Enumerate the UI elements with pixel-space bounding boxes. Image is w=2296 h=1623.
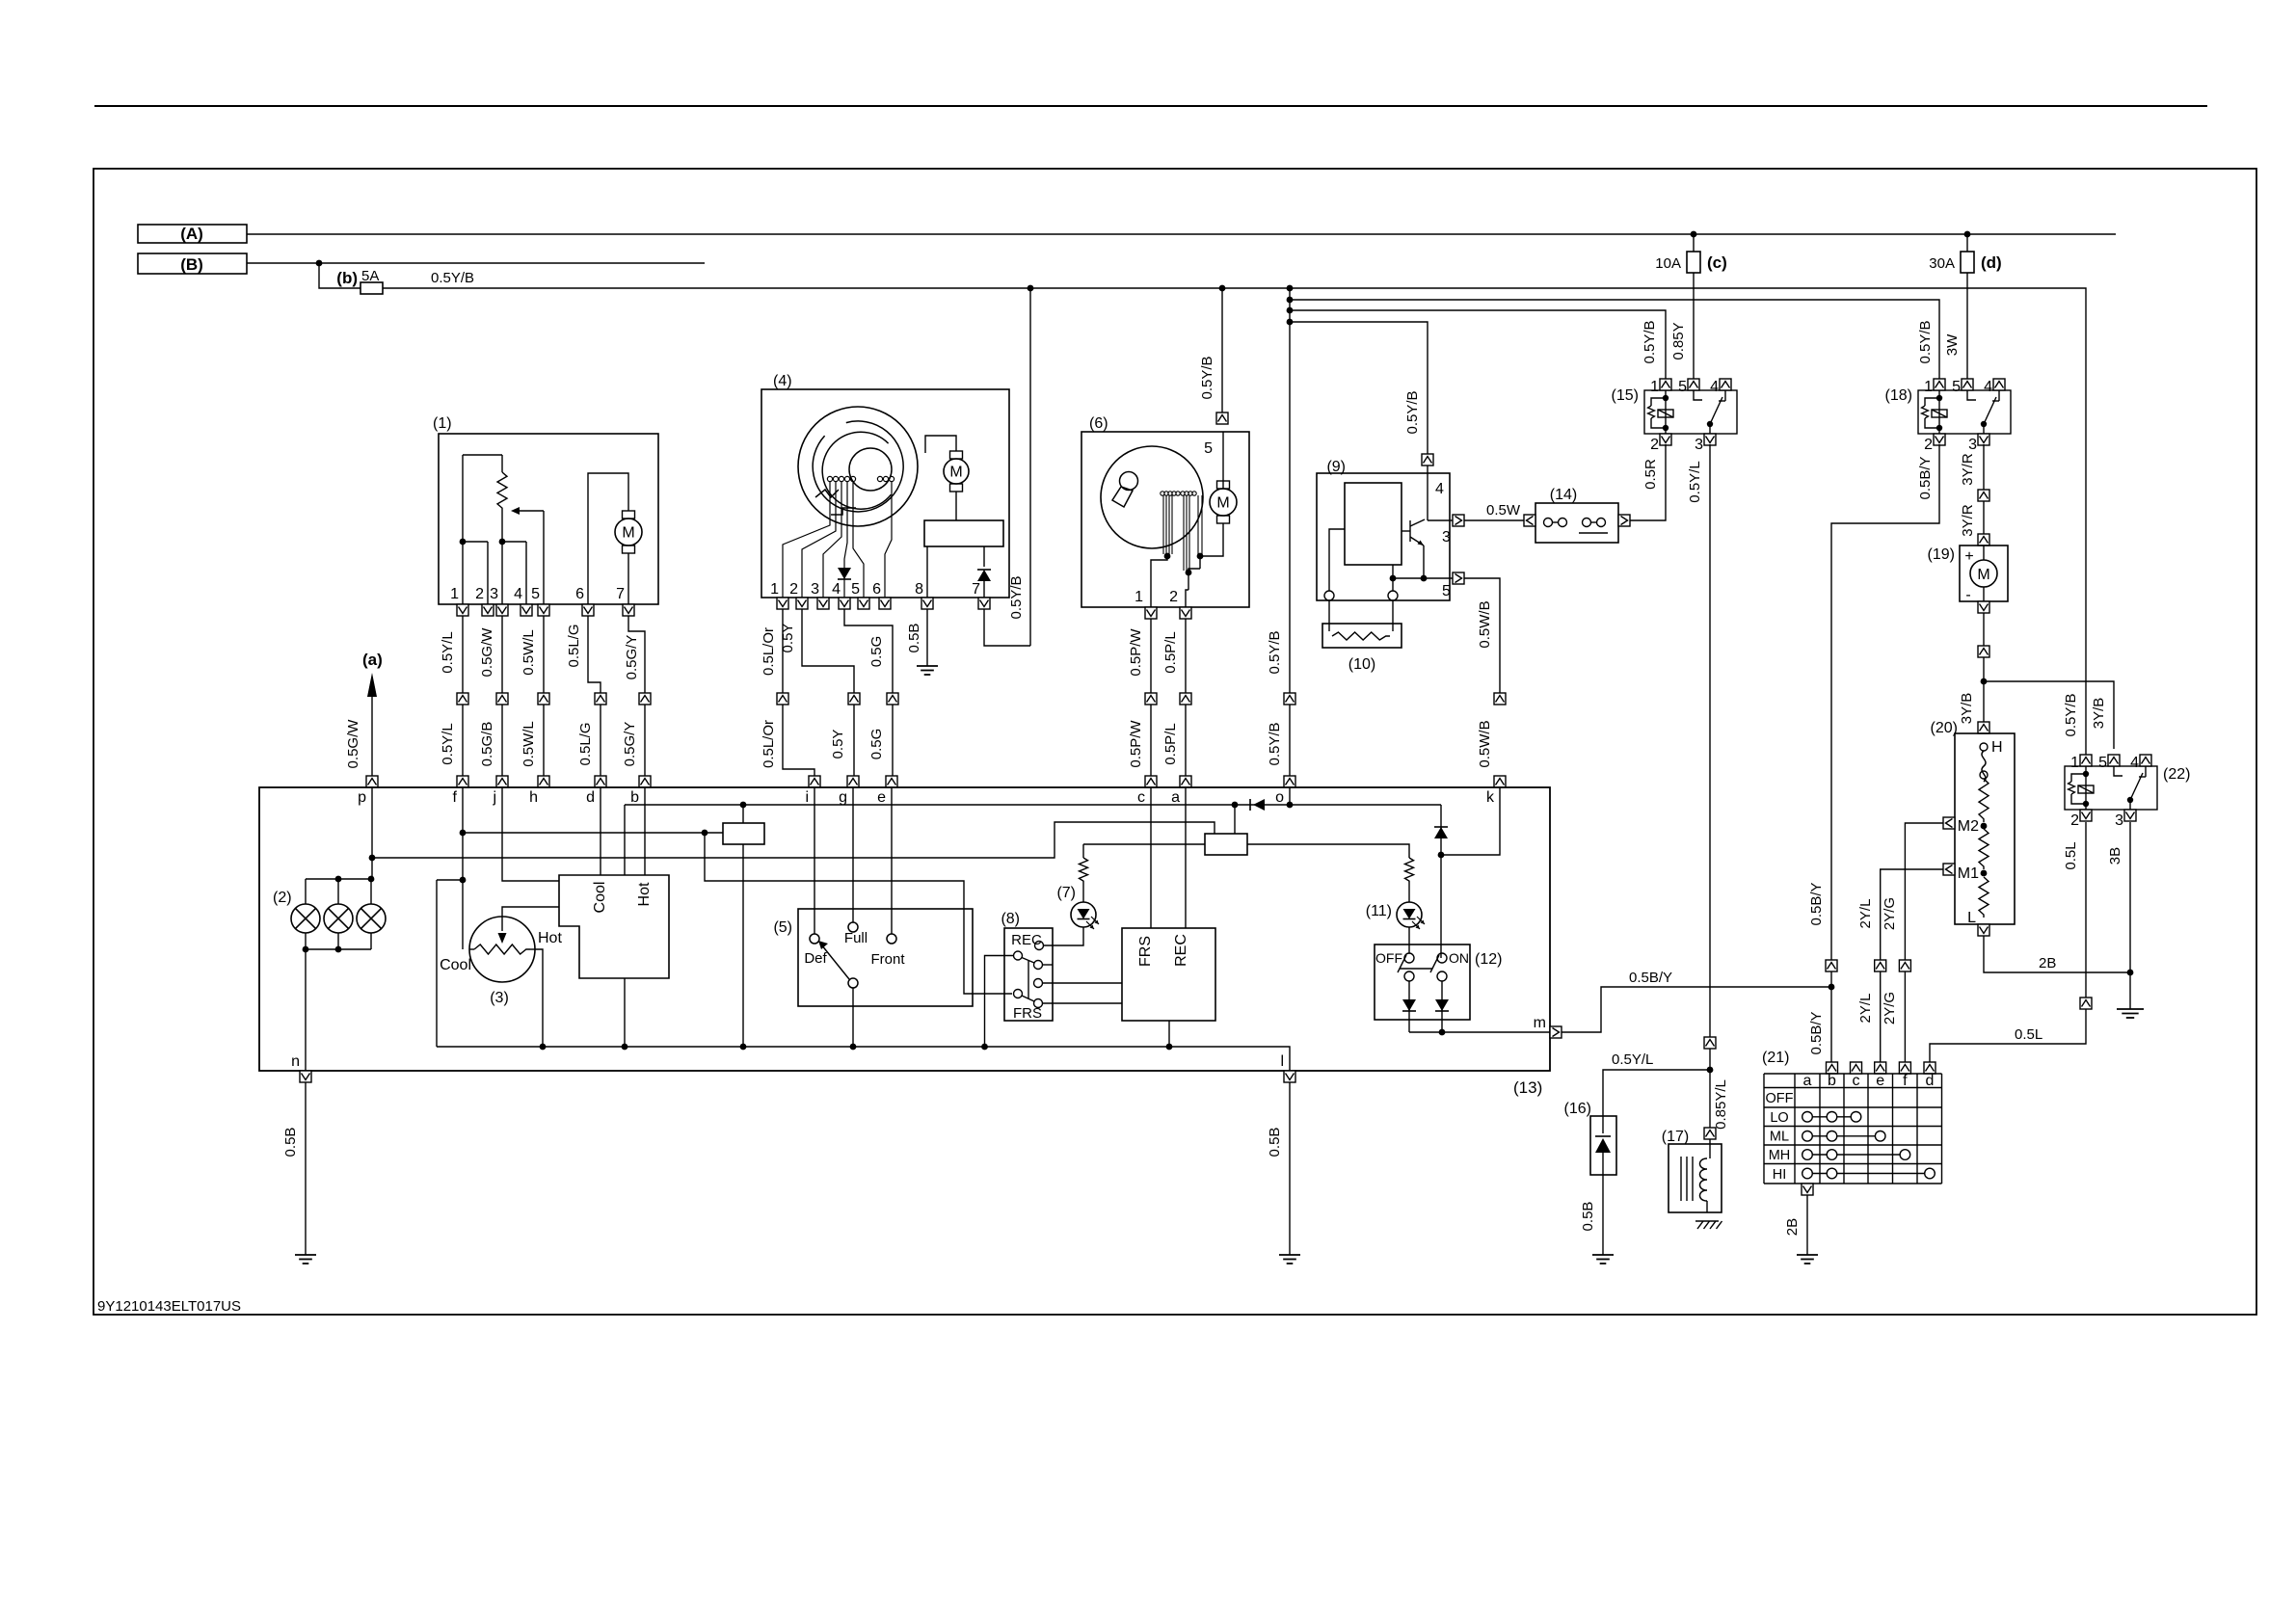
LED 7 resistor (1082, 844, 1084, 858)
relay (15) pin 1 connector (1660, 379, 1671, 390)
svg-text:3Y/B: 3Y/B (1959, 693, 1975, 725)
switch8 contacts (1035, 942, 1044, 950)
unit 4 hub (849, 448, 892, 491)
connector d mid (595, 693, 606, 705)
connector n (300, 1071, 311, 1082)
wire 0.5B unit4 pin8 to ground (926, 609, 928, 666)
connector 2Y/G inline (1899, 960, 1910, 971)
svg-text:n: n (291, 1053, 300, 1070)
wire 0.5Y/B vertical x1069 to unit 4 pin 7 (1029, 288, 1031, 646)
unit 1 pin connector x506 (482, 604, 494, 616)
svg-text:(5): (5) (773, 919, 792, 936)
relay (18) pin 4 connector (1993, 379, 2005, 390)
svg-text:(b): (b) (336, 269, 358, 287)
svg-text:7: 7 (616, 586, 625, 602)
svg-text:(3): (3) (490, 990, 509, 1006)
svg-text:M: M (1977, 567, 1989, 583)
svg-text:0.5Y/B: 0.5Y/B (1917, 320, 1934, 363)
svg-text:5: 5 (1204, 440, 1213, 457)
connector d panel (595, 776, 606, 787)
svg-text:(2): (2) (273, 890, 292, 906)
relay (18) pin 3 connector (1978, 434, 1989, 445)
svg-text:0.5B/Y: 0.5B/Y (1808, 882, 1825, 925)
connector k panel (1494, 776, 1506, 787)
svg-text:2: 2 (1650, 437, 1659, 453)
svg-text:3: 3 (1968, 437, 1977, 453)
svg-text:(c): (c) (1707, 253, 1727, 272)
svg-text:(1): (1) (433, 415, 452, 432)
wire 0.5W/L unit1 pin5 to terminal h (543, 616, 545, 776)
svg-text:0.5B: 0.5B (1267, 1128, 1283, 1157)
svg-text:a: a (1171, 789, 1180, 806)
wire rect2 left to LED7 (1083, 843, 1205, 845)
svg-text:2: 2 (1169, 589, 1178, 605)
wire 0.5Y/L rail (1603, 1070, 1710, 1116)
wire ON diode branch (1440, 805, 1442, 958)
svg-text:6: 6 (575, 586, 584, 602)
node bus-1338 (1287, 285, 1294, 292)
svg-text:Cool: Cool (592, 882, 608, 914)
unit 4 pin connector x896 (858, 598, 869, 609)
svg-text:1: 1 (1924, 379, 1933, 395)
svg-text:0.5W/L: 0.5W/L (521, 721, 537, 767)
svg-text:0.5W/L: 0.5W/L (521, 629, 537, 676)
svg-text:2: 2 (1924, 437, 1933, 453)
node B-fuse b (316, 260, 323, 267)
unit 1 rheostat (497, 472, 507, 511)
svg-text:5: 5 (531, 586, 540, 602)
connector 0.5B/Y inline (1826, 960, 1837, 971)
wire heater box bottom (624, 978, 626, 1047)
svg-text:0.5L: 0.5L (2015, 1026, 2042, 1043)
svg-text:(17): (17) (1662, 1129, 1689, 1145)
wire d drop (600, 787, 601, 875)
panel bus (437, 1047, 1290, 1071)
wire i drop (814, 787, 815, 934)
svg-text:5: 5 (1678, 379, 1687, 395)
node 2B-3B (2127, 970, 2134, 976)
connector motor19 out (1978, 601, 1989, 613)
connector m (1550, 1026, 1562, 1038)
connector i panel (809, 776, 820, 787)
svg-text:0.5G/Y: 0.5G/Y (624, 635, 640, 680)
fan switch 21 contacts (1807, 1116, 1856, 1118)
connector unit6 pin5 (1216, 412, 1228, 424)
svg-text:c: c (1137, 789, 1145, 806)
svg-text:(12): (12) (1475, 951, 1502, 968)
svg-text:4: 4 (514, 586, 522, 602)
svg-text:L: L (1967, 910, 1976, 926)
svg-text:0.5W/B: 0.5W/B (1477, 720, 1493, 767)
node A-10A (1691, 231, 1697, 238)
svg-text:MH: MH (1769, 1148, 1791, 1163)
fuse b 5A (360, 282, 383, 294)
svg-text:1: 1 (1650, 379, 1659, 395)
svg-text:4: 4 (1435, 481, 1444, 497)
connector g panel (847, 776, 859, 787)
connector 0.5L inline (2080, 998, 2092, 1009)
svg-text:H: H (1991, 739, 2003, 756)
wire 0.5Y/B vertical to terminal o (1289, 288, 1291, 776)
svg-text:0.5Y: 0.5Y (830, 730, 846, 759)
connector i mid (777, 693, 788, 705)
connector k mid (1494, 693, 1506, 705)
relay (18) pin 1 connector (1934, 379, 1945, 390)
svg-text:(B): (B) (180, 255, 203, 274)
svg-text:3W: 3W (1944, 333, 1961, 356)
svg-text:2: 2 (789, 581, 798, 598)
svg-text:h: h (529, 789, 538, 806)
svg-text:a: a (1803, 1073, 1812, 1089)
unit 6 motor wires (1222, 432, 1224, 489)
relay (22) pin 2 connector (2080, 810, 2092, 821)
svg-text:m: m (1534, 1015, 1546, 1031)
svg-text:0.5L: 0.5L (2063, 841, 2079, 869)
wire 3Y/B to relay22 pin5 (1984, 681, 2114, 749)
connector e panel (886, 776, 897, 787)
unit 9 transistor (1427, 466, 1428, 520)
wire p bus y890 (372, 822, 1215, 858)
wire LED7 to REC contact (1043, 927, 1083, 945)
wire 0.5W unit9 pin3 to fusebox 14 (1464, 519, 1527, 521)
unit 9 emitter rail (1393, 577, 1453, 579)
unit 6 pin wires (1151, 556, 1167, 607)
svg-text:0.5B/Y: 0.5B/Y (1629, 970, 1672, 986)
svg-text:e: e (1876, 1073, 1884, 1089)
svg-text:ML: ML (1770, 1130, 1789, 1145)
svg-text:b: b (630, 789, 639, 806)
connector resistor20 top (1978, 722, 1989, 733)
switch12 contacts (1404, 953, 1414, 963)
svg-text:2Y/L: 2Y/L (1857, 994, 1874, 1024)
svg-text:LO: LO (1770, 1110, 1788, 1126)
svg-text:(6): (6) (1089, 415, 1108, 432)
svg-text:0.5P/W: 0.5P/W (1128, 628, 1144, 677)
svg-text:g: g (839, 789, 847, 806)
wire 3Y/B to resistor 20 (1983, 681, 1985, 722)
svg-text:0.5P/W: 0.5P/W (1128, 720, 1144, 768)
svg-text:0.5L/G: 0.5L/G (577, 722, 594, 765)
unit 4 pin connector x918 (879, 598, 891, 609)
svg-text:2: 2 (2070, 812, 2079, 829)
wire 0.5R relay15 pin2 to fusebox 14 (1630, 444, 1666, 520)
connector fan-switch b (1827, 1062, 1838, 1074)
relay (15) common pin 5 contact (1694, 390, 1702, 400)
wire 2B fan switch a to ground (1806, 1195, 1808, 1255)
svg-text:4: 4 (2130, 755, 2139, 771)
lamp bottom bus (305, 933, 307, 949)
connector 3Y/R 2 (1978, 534, 1989, 545)
unit 6 key (1120, 472, 1138, 491)
wire line B (247, 262, 705, 264)
svg-text:(18): (18) (1885, 387, 1912, 404)
svg-text:0.5Y/L: 0.5Y/L (1687, 461, 1703, 502)
svg-text:0.5Y/L: 0.5Y/L (440, 631, 456, 673)
unit 9 inner block (1345, 483, 1402, 565)
connector f panel (457, 776, 468, 787)
wire 0.5Y/B branch y322 to relay 15 pin 1 (1290, 310, 1666, 385)
unit 9 left terminal (1324, 591, 1334, 600)
wire 3B relay22 pin3 down (2129, 822, 2131, 972)
unit 4 pin connector x832 (796, 598, 808, 609)
svg-text:M: M (949, 465, 962, 481)
svg-text:2Y/G: 2Y/G (1882, 897, 1898, 930)
svg-text:i: i (805, 789, 809, 806)
connector fan-switch c (1851, 1062, 1862, 1074)
unit 1 pin connector x546 (521, 604, 532, 616)
node M2 (1981, 823, 1988, 830)
connector fan-switch d (1924, 1062, 1936, 1074)
control panel 13 box (259, 787, 1550, 1071)
svg-text:0.5P/L: 0.5P/L (1162, 723, 1179, 764)
wire 3Y/R relay18 pin3 to motor 19 (1983, 444, 1985, 545)
resistor 10 box (1328, 600, 1330, 631)
svg-text:o: o (1275, 789, 1284, 806)
svg-text:M: M (1216, 495, 1229, 512)
connector resistor20 bottom (1978, 924, 1989, 936)
svg-text:Full: Full (844, 930, 868, 946)
connector M2 left (1943, 817, 1955, 829)
connector j panel (496, 776, 508, 787)
wire 0.5Y/L relay15 pin3 down (1709, 444, 1711, 1070)
svg-text:-: - (1965, 587, 1970, 603)
svg-text:3B: 3B (2107, 847, 2123, 865)
svg-text:f: f (453, 789, 458, 806)
FRS/REC control box (1122, 928, 1215, 1021)
wire 0.5Y/B bus y299 (383, 288, 2086, 755)
wire 0.5G unit4 pin4 to terminal e (844, 609, 893, 693)
svg-text:1: 1 (450, 586, 459, 602)
svg-text:(d): (d) (1981, 253, 2002, 272)
resistor 20 element M1-L (1979, 877, 1989, 918)
node f864 (702, 830, 708, 837)
svg-text:0.5Y/B: 0.5Y/B (1267, 630, 1283, 674)
connector fan-switch e (1875, 1062, 1886, 1074)
svg-text:0.5Y/B: 0.5Y/B (1199, 356, 1215, 399)
svg-text:4: 4 (832, 581, 841, 598)
svg-text:0.5Y/B: 0.5Y/B (1008, 575, 1025, 619)
connector h mid (538, 693, 549, 705)
connector a mid (1180, 693, 1191, 705)
wire o drop (1289, 787, 1291, 805)
wire OFF branch (1408, 981, 1410, 1032)
svg-text:0.5Y: 0.5Y (780, 624, 796, 653)
relay (22) pin 4 connector (2140, 755, 2151, 766)
svg-text:M1: M1 (1958, 865, 1979, 882)
wire rect2 right to LED11 (1247, 844, 1409, 858)
wire a drop (1185, 787, 1187, 928)
svg-text:d: d (586, 789, 595, 806)
node M1 (1981, 870, 1988, 877)
svg-text:0.5W/B: 0.5W/B (1477, 600, 1493, 648)
unit 6 node3 (1197, 553, 1204, 560)
svg-text:(7): (7) (1056, 885, 1076, 901)
connector box (B) (138, 253, 247, 274)
wire 0.5L/G unit1 pin6 to terminal d (588, 616, 601, 693)
unit 4 pin connector x812 (777, 598, 788, 609)
svg-text:ON: ON (1449, 950, 1469, 966)
wire 0.5L relay22 pin2 to fan switch d (2085, 822, 2087, 998)
connector f mid (457, 693, 468, 705)
wire mid2 to control (1042, 982, 1122, 984)
svg-text:0.5B: 0.5B (282, 1128, 299, 1157)
svg-text:(4): (4) (773, 373, 792, 389)
svg-text:5A: 5A (361, 268, 379, 284)
relay (15) pin 2 connector (1660, 434, 1671, 445)
svg-text:Def: Def (804, 950, 827, 967)
svg-text:2B: 2B (2039, 955, 2056, 971)
svg-text:0.5B/Y: 0.5B/Y (1808, 1011, 1825, 1054)
connector j mid (496, 693, 508, 705)
node m-bus b junction (1829, 984, 1835, 991)
switch 5 contacts (810, 934, 819, 944)
connector M1 left (1943, 864, 1955, 875)
unit 4 cam shapes (815, 490, 839, 497)
wire ON branch (1441, 981, 1443, 1032)
connector b panel (639, 776, 651, 787)
connector h panel (538, 776, 549, 787)
svg-text:3Y/B: 3Y/B (2091, 698, 2107, 730)
connector fan-switch a bottom (1802, 1184, 1813, 1195)
svg-text:0.5Y/B: 0.5Y/B (431, 270, 474, 286)
svg-text:3: 3 (1695, 437, 1703, 453)
relay (15) coil (1665, 390, 1667, 434)
svg-text:(15): (15) (1612, 387, 1639, 404)
relay (22) coil (2085, 766, 2087, 810)
relay (18) box (1918, 390, 2011, 434)
wire B to fuse b (319, 263, 360, 288)
connector 0.5Y/L inline (1704, 1037, 1716, 1049)
LED 11 resistor (1405, 858, 1414, 883)
connector g mid (848, 693, 860, 705)
svg-text:REC: REC (1011, 932, 1042, 948)
connector o panel (1284, 776, 1295, 787)
svg-text:0.5Y/L: 0.5Y/L (1612, 1051, 1653, 1068)
unit 9 pin 5 connector (1453, 572, 1464, 584)
svg-text:e: e (877, 789, 886, 806)
wire unit4 pin7 to 0.5Y/B (984, 609, 1030, 646)
ground 2B (2129, 972, 2131, 1009)
switch12 levers (1398, 955, 1406, 972)
unit 4 motor wires (925, 436, 956, 453)
svg-text:5: 5 (1442, 583, 1451, 599)
connector 0.85Y/L (1704, 1128, 1716, 1139)
svg-text:6: 6 (872, 581, 881, 598)
relay (15) pin 5 connector (1688, 379, 1699, 390)
relay (22) pin 5 connector (2108, 755, 2120, 766)
svg-text:3: 3 (1442, 529, 1451, 545)
unit 6 pin1 connector (1145, 607, 1157, 619)
unit 1 pin connector x564 (538, 604, 549, 616)
diode ON branch (1434, 827, 1448, 838)
svg-text:(19): (19) (1928, 546, 1955, 563)
wire g drop (852, 787, 854, 922)
relay (18) coil (1938, 390, 1940, 434)
AC switch (12) (1375, 945, 1470, 1020)
connector 3Y/R 1 (1978, 490, 1989, 501)
svg-text:k: k (1486, 789, 1495, 806)
relay (18) pin 2 connector (1934, 434, 1945, 445)
wire 0.5P/W unit6 pin1 to terminal c (1150, 619, 1152, 776)
unit 6 node1 (1164, 553, 1171, 560)
wire LED11 to OFF contact (1408, 927, 1410, 953)
wire 2B resistor20 to ground (1984, 936, 2130, 972)
wire f branch y864 to resistor block (463, 832, 723, 834)
wire f vertical (462, 787, 464, 949)
svg-text:4: 4 (1984, 379, 1992, 395)
wire FRS feed (705, 833, 1012, 994)
svg-text:(10): (10) (1348, 656, 1375, 673)
svg-text:0.5G/W: 0.5G/W (479, 627, 495, 678)
svg-text:0.5Y/L: 0.5Y/L (440, 723, 456, 764)
svg-text:1: 1 (770, 581, 779, 598)
wire 0.5L/Or unit4 pin1 to terminal i (782, 609, 784, 693)
wire line A (247, 233, 2116, 235)
svg-text:c: c (1853, 1073, 1860, 1089)
node bus-1268 (1219, 285, 1226, 292)
unit 1 internal wires (462, 455, 464, 604)
ground hatch 17 (1695, 1220, 1719, 1222)
unit 1 wiper arrow (543, 511, 545, 604)
relay (22) pin 1 connector (2080, 755, 2092, 766)
svg-text:0.5Y/B: 0.5Y/B (1267, 722, 1283, 765)
connector e mid (887, 693, 898, 705)
unit 6 node2 (1186, 570, 1192, 576)
relay (22) common pin 5 contact (2114, 766, 2122, 776)
unit 9 pin 4 connector (1422, 454, 1433, 466)
unit 4 pin connector x854 (817, 598, 829, 609)
wire 0.5Y/B branch y311 to relay 18 pin 1 (1290, 300, 1939, 385)
connector 3Y/B inline (1978, 646, 1989, 657)
wire 0.5Y/B vertical x1268 to unit 6 pin 5 (1221, 288, 1223, 412)
unit 1 pin connector x652 (623, 604, 634, 616)
unit 6 pin2 connector (1180, 607, 1191, 619)
svg-text:b: b (1828, 1073, 1836, 1089)
svg-text:5: 5 (2098, 755, 2107, 771)
svg-text:0.5Y/B: 0.5Y/B (1404, 390, 1421, 434)
wire 0.5G/W unit1 pin3 to terminal j (501, 616, 503, 776)
wire bus y835 (625, 804, 1441, 806)
wire 0.5B/Y m to fan switch (1562, 987, 1831, 1032)
relay (22) box (2065, 766, 2157, 810)
relay (18) pin 5 connector (1962, 379, 1973, 390)
unit 9 right terminal (1388, 591, 1398, 600)
svg-text:10A: 10A (1655, 255, 1681, 272)
svg-text:(14): (14) (1550, 487, 1577, 503)
svg-text:Front: Front (870, 951, 905, 968)
svg-text:5: 5 (1952, 379, 1961, 395)
connector 2Y/L inline (1875, 960, 1886, 971)
wire 0.5B diode16 to ground (1602, 1175, 1604, 1255)
unit 4 dial outer (798, 407, 918, 526)
svg-text:0.85Y: 0.85Y (1670, 322, 1687, 359)
connector fan-switch f (1899, 1062, 1910, 1074)
resistor 20 element M2-M1 (1979, 829, 1989, 869)
svg-text:0.5L/G: 0.5L/G (566, 624, 582, 667)
unit 6 contacts (1161, 492, 1164, 495)
unit 1 pin connector x521 (496, 604, 508, 616)
connector c mid (1145, 693, 1157, 705)
connector o mid (1284, 693, 1295, 705)
svg-text:(13): (13) (1513, 1078, 1542, 1097)
node 3Y/B split (1981, 678, 1988, 685)
svg-text:3Y/R: 3Y/R (1960, 504, 1976, 537)
svg-text:0.5L/Or: 0.5L/Or (761, 627, 777, 676)
svg-text:(8): (8) (1001, 911, 1020, 927)
node A-30A (1964, 231, 1971, 238)
unit 6 motor (1217, 481, 1230, 489)
svg-text:(a): (a) (362, 651, 383, 669)
